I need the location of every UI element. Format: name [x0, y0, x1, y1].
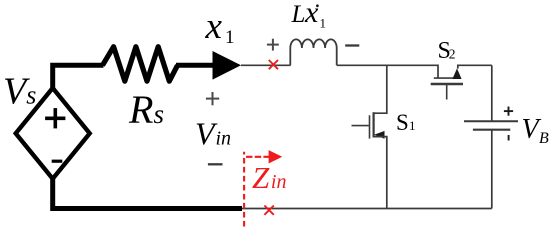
- polarity - tick (VB): [508, 135, 510, 141]
- wire: right side down to battery: [491, 65, 493, 121]
- impedance Zin dashed red arrow: [244, 150, 282, 226]
- label Vin: [195, 116, 231, 152]
- wire: bottom thin segment (battery to node): [241, 208, 492, 210]
- svg-text:x: x: [304, 0, 319, 29]
- label Rs: [128, 87, 164, 132]
- label Zin: [252, 160, 286, 195]
- svg-text:1: 1: [225, 27, 235, 48]
- transistor S2 (MOSFET): [431, 65, 492, 99]
- polarity + (left of inductor): [267, 39, 279, 51]
- transistor S1 (MOSFET): [352, 65, 387, 208]
- svg-text:1: 1: [320, 15, 327, 30]
- svg-text:in: in: [216, 128, 232, 150]
- svg-text:x: x: [205, 6, 223, 47]
- polarity + (Vin): [206, 92, 219, 105]
- node marker (red x) on bottom wire: [264, 206, 273, 215]
- polarity + (VB): [504, 107, 513, 116]
- svg-text:Vs: Vs: [3, 71, 36, 113]
- svg-text:L: L: [291, 1, 306, 28]
- svg-text:Z: Z: [252, 160, 270, 195]
- wire: inductor to S2 corner (with junction to S1 branch): [337, 65, 438, 78]
- svg-text:Rs: Rs: [128, 87, 164, 132]
- wire: arrow tip to inductor: [241, 64, 291, 66]
- svg-text:S: S: [396, 110, 409, 135]
- polarity - (right of inductor): [345, 44, 359, 46]
- polarity - (Vin): [208, 163, 223, 165]
- voltage source Vs (diamond): [16, 88, 90, 179]
- inductor L: [290, 39, 336, 65]
- wire: bottom thick segment back to Vs: [53, 178, 242, 209]
- label Vs: [3, 71, 36, 113]
- label VB: [522, 114, 550, 147]
- label x1: [205, 6, 235, 48]
- label S2: [438, 38, 456, 64]
- wire: Vs top lead up and right to resistor: [53, 65, 104, 88]
- svg-text:1: 1: [409, 118, 416, 133]
- svg-text:2: 2: [449, 47, 456, 62]
- polarity - inside Vs: [52, 160, 63, 163]
- resistor Rs (zigzag): [103, 47, 178, 81]
- svg-text:B: B: [539, 130, 549, 147]
- svg-text:in: in: [271, 171, 287, 193]
- label L x1-dot: [291, 0, 327, 30]
- battery VB: [464, 121, 518, 208]
- arrow: thick current arrow into node x1: [176, 51, 241, 80]
- node x1 marker (red x): [269, 60, 278, 69]
- label S1: [396, 110, 416, 135]
- polarity + inside Vs: [45, 108, 65, 128]
